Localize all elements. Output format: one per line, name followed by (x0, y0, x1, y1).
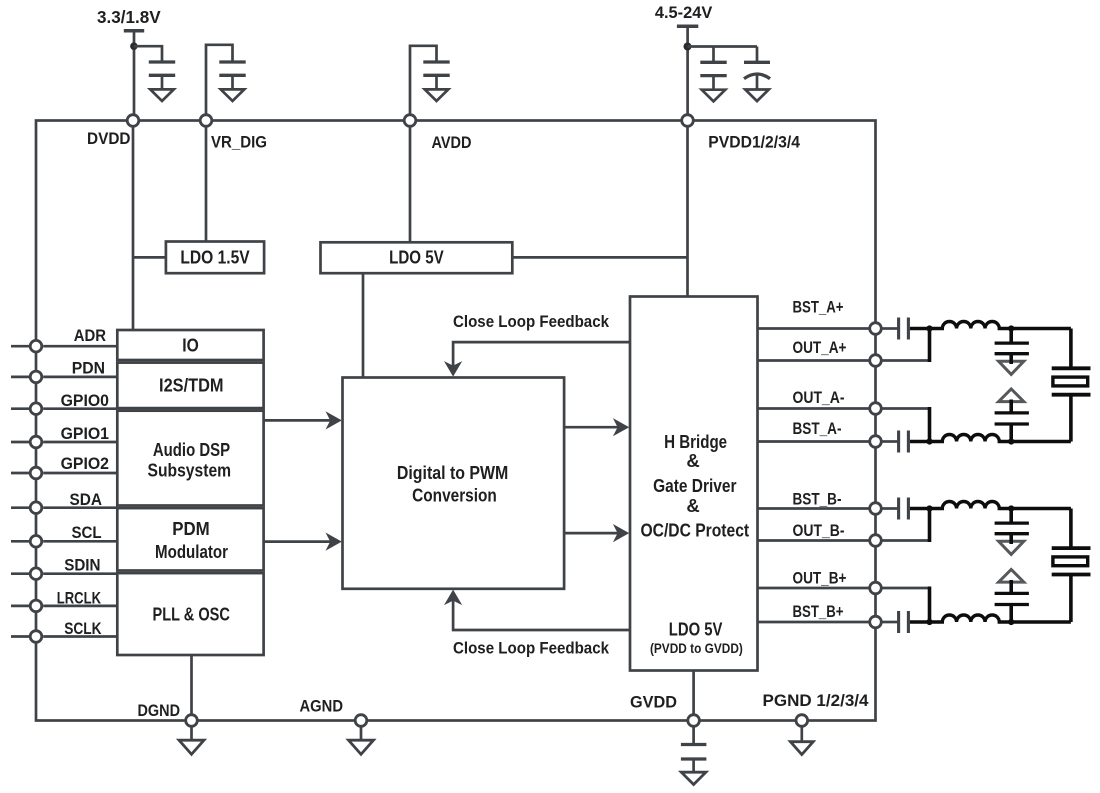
pin SDA (11, 491, 117, 514)
pin PDN (11, 359, 117, 382)
svg-text:OUT_B+: OUT_B+ (793, 570, 847, 588)
wire H Bridge LDO to GVDD (692, 671, 695, 715)
junction (1008, 505, 1014, 511)
block LDO 5V (U2) (321, 242, 513, 273)
arrow Digital-to-PWM to H Bridge (lower) (564, 524, 629, 542)
wire AVDD riser (409, 127, 412, 243)
svg-text:H Bridge: H Bridge (664, 431, 727, 452)
junction (1008, 438, 1014, 444)
wire PVDD riser (686, 127, 689, 297)
svg-text:ADR: ADR (74, 327, 106, 345)
wire DVDD riser (132, 127, 135, 330)
capacitor C2 (VR_DIG bypass) (219, 62, 245, 89)
svg-text:SCLK: SCLK (64, 620, 101, 638)
inductor LB2 (930, 615, 1012, 622)
pin OUT_B- (758, 522, 882, 546)
svg-text:PDN: PDN (72, 359, 105, 377)
svg-text:BST_B+: BST_B+ (793, 603, 844, 621)
capacitor CB1 (filter) (995, 509, 1029, 545)
wire (883, 539, 929, 542)
capacitor C_BST A1 (bootstrap) (883, 318, 930, 340)
svg-text:&: & (686, 495, 699, 516)
inductor LA1 (930, 322, 1012, 329)
svg-text:Close Loop Feedback: Close Loop Feedback (453, 313, 610, 331)
wire (928, 509, 932, 543)
svg-text:3.3/1.8V: 3.3/1.8V (97, 7, 161, 27)
svg-text:BST_B-: BST_B- (793, 491, 842, 509)
junction (684, 43, 692, 51)
speaker load B (1052, 548, 1091, 574)
pin OUT_A- (758, 389, 882, 414)
wire (686, 26, 689, 114)
junction (1008, 325, 1014, 331)
wire (206, 45, 233, 115)
svg-text:LRCLK: LRCLK (57, 590, 101, 608)
capacitor CA1 (filter) (995, 329, 1029, 365)
svg-text:BST_A-: BST_A- (793, 420, 842, 438)
ground (221, 89, 245, 101)
wire PLL to DGND (190, 655, 193, 715)
ground AGND (349, 727, 374, 755)
svg-text:SDA: SDA (70, 491, 103, 509)
supply rail 3.3/1.8V (97, 7, 161, 31)
wire (1011, 507, 1071, 511)
svg-text:(PVDD to GVDD): (PVDD to GVDD) (650, 641, 743, 656)
pin LRCLK (11, 590, 117, 612)
svg-text:LDO 5V: LDO 5V (389, 246, 444, 267)
pin BST_A+ (758, 299, 882, 335)
svg-text:OUT_A-: OUT_A- (793, 389, 845, 407)
wire (928, 329, 932, 363)
svg-text:&: & (686, 450, 699, 471)
inductor LA2 (930, 435, 1012, 442)
wire (1011, 327, 1071, 331)
inductor LB1 (930, 502, 1012, 509)
ground (999, 389, 1024, 402)
wire (1011, 620, 1071, 624)
svg-text:GPIO1: GPIO1 (61, 425, 109, 443)
wire DVDD to LDO 1.5V (133, 256, 166, 259)
ground (702, 90, 726, 102)
arrow Digital-to-PWM to H Bridge (upper) (564, 418, 629, 436)
svg-text:AGND: AGND (300, 698, 344, 716)
ground (425, 89, 449, 101)
svg-text:BST_A+: BST_A+ (793, 299, 844, 317)
wire (928, 587, 932, 623)
svg-text:Gate Driver: Gate Driver (653, 475, 736, 496)
block label LDO 5V (PVDD to GVDD) (650, 619, 743, 657)
wire Close Loop Feedback (top) (444, 313, 630, 377)
wire (134, 46, 162, 62)
ground (681, 772, 706, 784)
svg-text:Digital to PWM: Digital to PWM (397, 462, 508, 483)
wire (928, 407, 932, 442)
capacitor CA2 (filter) (995, 400, 1029, 442)
svg-text:OUT_A+: OUT_A+ (793, 339, 847, 357)
svg-text:OUT_B-: OUT_B- (793, 522, 845, 540)
block PDM Modulator (117, 508, 263, 570)
junction (926, 438, 932, 444)
pin BST_B+ (758, 603, 882, 628)
svg-text:LDO 1.5V: LDO 1.5V (180, 246, 250, 267)
pin GVDD (630, 694, 699, 727)
pin GPIO0 (11, 392, 117, 415)
pin DGND (138, 702, 198, 726)
wire (688, 45, 758, 48)
svg-text:Subsystem: Subsystem (148, 459, 232, 480)
svg-text:VR_DIG: VR_DIG (211, 134, 267, 152)
wire (883, 587, 929, 590)
svg-text:PGND 1/2/3/4: PGND 1/2/3/4 (763, 692, 870, 710)
wire (1069, 575, 1073, 623)
chip outline TAS device (36, 121, 876, 721)
svg-text:DGND: DGND (138, 702, 181, 720)
svg-text:LDO 5V: LDO 5V (669, 619, 723, 640)
svg-text:Close Loop Feedback: Close Loop Feedback (453, 640, 610, 658)
pin AVDD (404, 115, 471, 152)
block PLL & OSC (117, 573, 263, 655)
pin DVDD (87, 115, 139, 148)
svg-text:PLL & OSC: PLL & OSC (153, 604, 230, 625)
svg-text:IO: IO (182, 335, 199, 356)
svg-text:DVDD: DVDD (87, 130, 131, 148)
svg-text:Modulator: Modulator (155, 541, 228, 562)
pin GPIO1 (11, 425, 117, 448)
capacitor C3 (AVDD bypass) (423, 62, 449, 89)
svg-text:PVDD1/2/3/4: PVDD1/2/3/4 (708, 134, 800, 152)
ground (745, 90, 769, 102)
block Audio DSP Subsystem (117, 411, 263, 506)
wire (756, 47, 759, 63)
svg-text:GPIO0: GPIO0 (61, 392, 109, 410)
pin BST_B- (758, 491, 882, 515)
junction (130, 42, 138, 50)
capacitor CB2 (filter) (995, 580, 1029, 622)
pin GPIO2 (11, 455, 117, 479)
pin OUT_A+ (758, 339, 882, 366)
wire (410, 46, 437, 115)
junction (926, 505, 932, 511)
svg-text:I2S/TDM: I2S/TDM (159, 375, 224, 396)
ground (150, 89, 174, 101)
pin OUT_B+ (758, 570, 882, 594)
supply rail 4.5-24V (655, 3, 713, 26)
capacitor C_BST B1 (bootstrap) (883, 498, 930, 520)
block IO (117, 330, 263, 360)
pin BST_A- (758, 420, 882, 447)
svg-text:PDM: PDM (172, 518, 210, 539)
block Digital to PWM Conversion (343, 378, 565, 589)
svg-text:SCL: SCL (72, 524, 102, 542)
capacitor C_BST A2 (bootstrap) (883, 431, 930, 453)
svg-text:4.5-24V: 4.5-24V (655, 3, 713, 22)
pin AGND (300, 698, 367, 727)
capacitor C_BST B2 (bootstrap) (883, 611, 930, 633)
ground (999, 361, 1024, 374)
wire LDO 5V to Digital-to-PWM (362, 273, 365, 377)
ground (999, 541, 1024, 554)
wire (712, 47, 715, 63)
block H Bridge / Gate Driver / OC-DC Protect (630, 297, 758, 671)
svg-text:GPIO2: GPIO2 (61, 455, 109, 473)
capacitor C6 (GVDD bypass) (681, 727, 707, 772)
wire VR_DIG riser (205, 127, 208, 242)
block LDO 1.5V (166, 242, 264, 274)
junction (926, 619, 932, 625)
svg-text:AVDD: AVDD (432, 134, 472, 152)
capacitor C4 (PVDD bypass) (700, 62, 726, 89)
ground DGND (179, 727, 204, 755)
pin PVDD1/2/3/4 (682, 115, 801, 152)
svg-text:GVDD: GVDD (630, 694, 677, 712)
junction (926, 325, 932, 331)
wire (1069, 509, 1073, 549)
svg-text:Audio DSP: Audio DSP (153, 439, 230, 460)
arrow PDM Modulator to Digital-to-PWM (264, 533, 342, 551)
wire (883, 407, 929, 410)
svg-text:SDIN: SDIN (64, 557, 100, 575)
pin SCLK (11, 620, 117, 642)
pin PGND 1/2/3/4 (763, 692, 870, 726)
pin VR_DIG (200, 115, 267, 152)
wire (883, 359, 929, 362)
wire (1069, 395, 1073, 442)
wire Close Loop Feedback (bottom) (444, 590, 630, 658)
wire LDO 5V to PVDD net (512, 256, 687, 259)
wire (1069, 329, 1073, 369)
ground PGND (790, 727, 813, 755)
capacitor C5 (PVDD bulk, polarized) (744, 62, 770, 89)
pin ADR (11, 327, 117, 352)
arrow Audio DSP to Digital-to-PWM (264, 411, 342, 429)
svg-text:OC/DC Protect: OC/DC Protect (641, 519, 750, 540)
pin SDIN (11, 557, 117, 580)
ground (999, 570, 1024, 583)
junction (1008, 619, 1014, 625)
wire (1011, 440, 1071, 444)
pin SCL (11, 524, 117, 547)
speaker load A (1052, 368, 1091, 394)
svg-text:Conversion: Conversion (412, 485, 497, 506)
capacitor C1 (DVDD bypass) (149, 62, 175, 89)
block I2S/TDM (117, 363, 263, 409)
wire (133, 31, 136, 115)
